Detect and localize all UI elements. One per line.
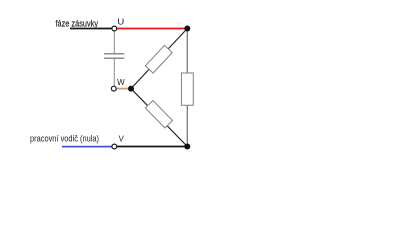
wire: grey lead capacitor bottom plate down to W [113, 58, 115, 86]
svg-text:U: U [117, 18, 124, 27]
node: top-right junction dot [184, 26, 190, 32]
wire: blue neutral wire to node V [62, 146, 112, 148]
svg-text:V: V [119, 135, 125, 144]
node W terminal circle [111, 86, 116, 91]
svg-text:pracovní vodič (nula): pracovní vodič (nula) [30, 134, 99, 145]
resistor: motor winding right vertical [182, 73, 194, 105]
node V terminal circle [112, 144, 117, 149]
node U terminal circle [112, 26, 117, 31]
wire: brown wire W terminal to junction [116, 88, 131, 90]
wire: phase lead under "zásuvky" to node U [70, 28, 112, 30]
wire: red phase wire U to top-right node [117, 28, 188, 30]
wire: grey lead U down to capacitor top plate [113, 31, 115, 54]
node: W junction dot [128, 86, 134, 92]
wire: diagonal W junction to top-right node [131, 29, 187, 89]
svg-text:W: W [117, 78, 125, 87]
capacitor between U and W [104, 54, 124, 59]
wire: diagonal W junction to bottom-right node [131, 89, 187, 147]
resistor: motor winding upper diagonal [145, 45, 172, 73]
wire: black bottom wire V to bottom-right node [117, 146, 188, 148]
svg-text:fáze zásuvky: fáze zásuvky [56, 18, 99, 29]
wire: grey vertical right side top node to bottom node [186, 29, 188, 147]
node: bottom-right junction dot [184, 144, 190, 150]
resistor: motor winding lower diagonal [145, 100, 172, 127]
